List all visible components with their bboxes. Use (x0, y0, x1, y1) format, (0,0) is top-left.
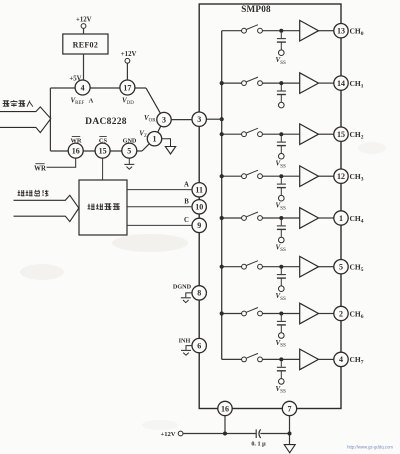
svg-text:SMP08: SMP08 (241, 4, 271, 14)
svg-text:GND: GND (123, 137, 137, 144)
svg-text:+12V: +12V (121, 51, 137, 58)
svg-text:CS: CS (99, 137, 108, 144)
svg-text:5: 5 (339, 263, 343, 272)
svg-text:REF02: REF02 (73, 41, 99, 50)
svg-text:7: 7 (288, 404, 292, 413)
svg-text:+12V: +12V (160, 431, 175, 438)
svg-text:10: 10 (195, 203, 203, 212)
svg-text:B: B (184, 199, 189, 206)
svg-text:WR: WR (70, 137, 81, 144)
svg-text:1: 1 (153, 135, 157, 144)
svg-text:2: 2 (339, 309, 343, 318)
svg-text:A: A (184, 181, 189, 188)
svg-text:+12V: +12V (76, 17, 92, 24)
svg-text:4: 4 (339, 355, 343, 364)
svg-text:C: C (184, 217, 189, 224)
svg-text:5: 5 (127, 146, 131, 155)
svg-text:DAC8228: DAC8228 (85, 117, 127, 127)
svg-text:INH: INH (179, 337, 191, 344)
svg-text:3: 3 (197, 115, 201, 124)
svg-text:17: 17 (123, 83, 131, 92)
svg-text:8: 8 (197, 289, 201, 298)
svg-text:+5V: +5V (69, 76, 81, 83)
svg-text:16: 16 (221, 404, 229, 413)
svg-text:6: 6 (197, 341, 201, 350)
svg-text:12: 12 (337, 172, 345, 181)
svg-text:14: 14 (337, 79, 345, 88)
svg-text:4: 4 (81, 83, 85, 92)
svg-text:3: 3 (162, 115, 166, 124)
svg-text:13: 13 (337, 27, 345, 36)
svg-text:15: 15 (337, 130, 345, 139)
svg-text:1: 1 (339, 214, 343, 223)
svg-text:11: 11 (195, 186, 203, 195)
svg-text:A: A (89, 97, 94, 104)
svg-text:9: 9 (197, 221, 201, 230)
svg-text:16: 16 (72, 146, 80, 155)
svg-text:DGND: DGND (173, 284, 192, 291)
svg-text:15: 15 (99, 146, 107, 155)
svg-text:0. 1 μ: 0. 1 μ (251, 441, 266, 448)
svg-text:WR: WR (34, 165, 46, 172)
svg-text:http://www.gz-gddq.com: http://www.gz-gddq.com (347, 445, 393, 450)
